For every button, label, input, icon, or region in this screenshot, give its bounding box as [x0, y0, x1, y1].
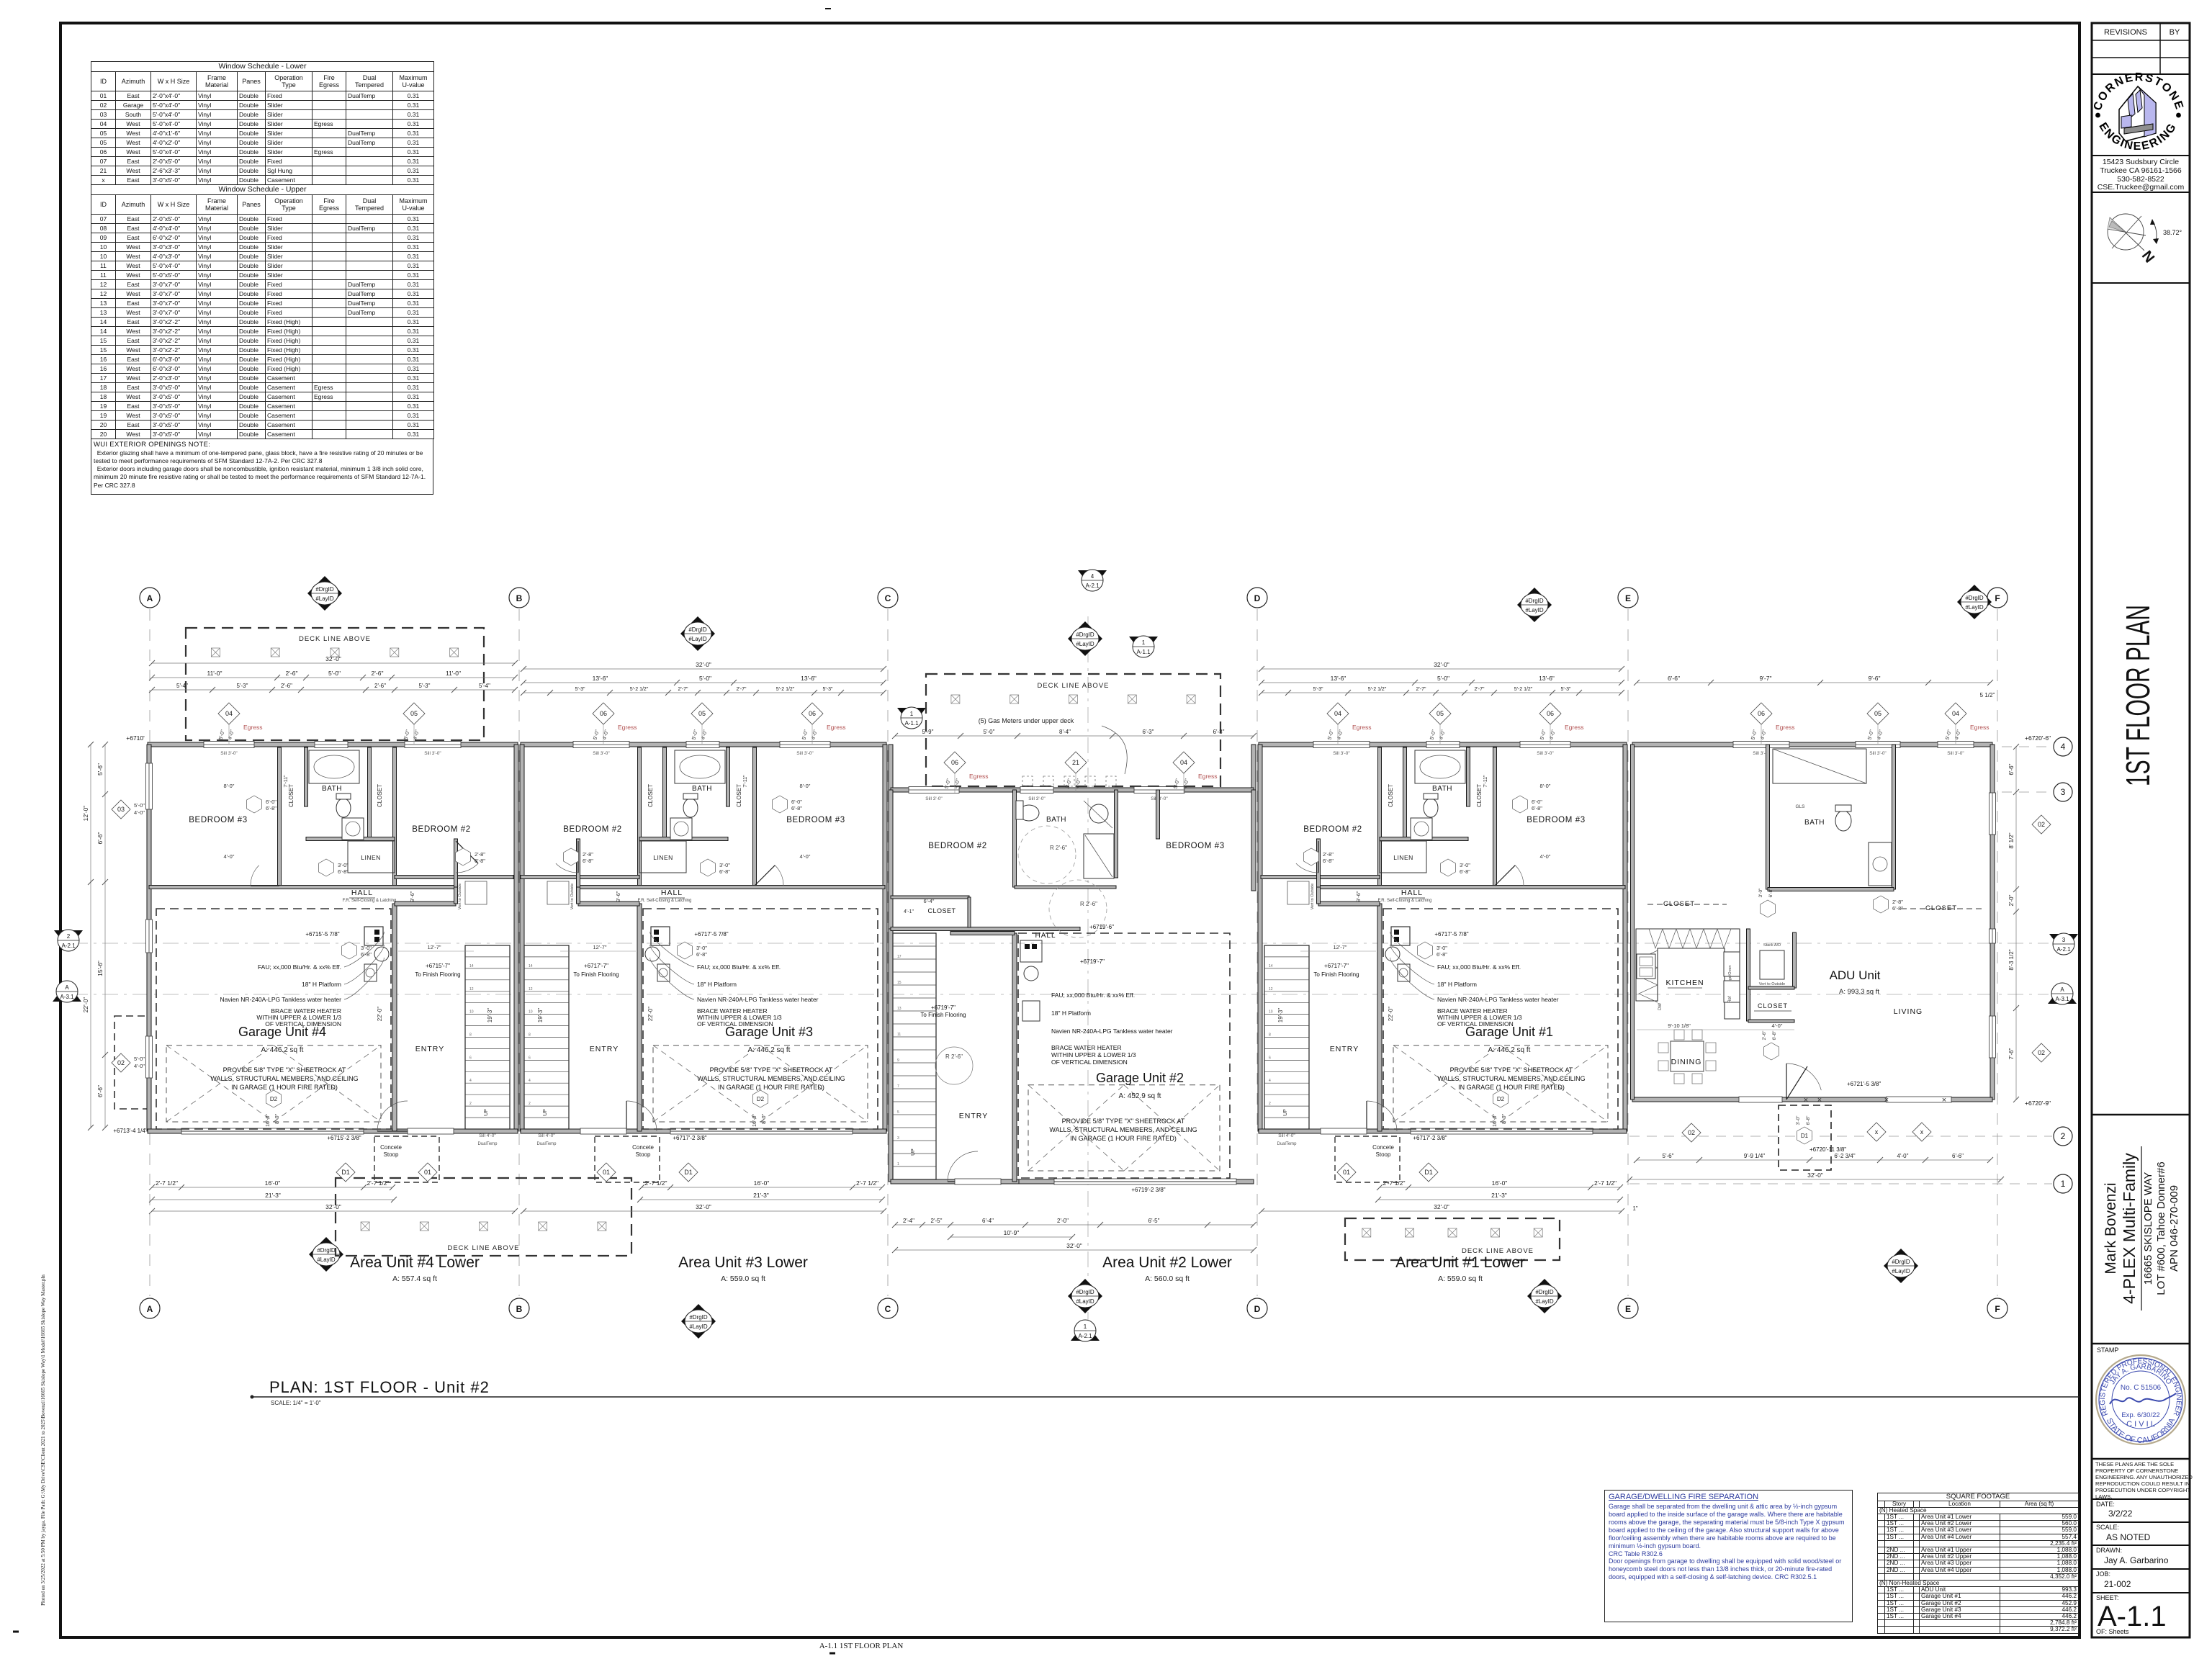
svg-text:N: N — [2139, 247, 2158, 265]
svg-text:16665 SKISLOPE WAY: 16665 SKISLOPE WAY — [2142, 1172, 2154, 1285]
svg-text:Vert to Outside: Vert to Outside — [1310, 884, 1315, 909]
svg-text:A: 559.0 sq ft: A: 559.0 sq ft — [1438, 1274, 1483, 1283]
svg-text:OF: Sheets: OF: Sheets — [2096, 1628, 2129, 1635]
bottom dims unit 2 — [895, 1224, 1254, 1226]
svg-text:B: B — [516, 593, 523, 603]
svg-text:22'-0": 22'-0" — [647, 1007, 654, 1022]
svg-text:04: 04 — [225, 710, 233, 717]
svg-text:2: 2 — [67, 933, 71, 940]
svg-text:12'-0": 12'-0" — [82, 806, 89, 822]
svg-text:14: 14 — [529, 964, 533, 968]
svg-text:HALL: HALL — [661, 889, 683, 897]
svg-text:D2: D2 — [270, 1096, 278, 1102]
unit 3 bath fixtures — [675, 750, 725, 783]
svg-text:3: 3 — [2061, 787, 2066, 797]
svg-text:7'-11": 7'-11" — [1483, 775, 1488, 788]
svg-text:F.R. Self-Closing & Latching: F.R. Self-Closing & Latching — [1378, 899, 1432, 903]
svg-text:Navien NR-240A-LPG Tankless wa: Navien NR-240A-LPG Tankless water heater — [697, 996, 819, 1003]
svg-text:7'-11": 7'-11" — [284, 775, 289, 788]
svg-text:4'-0": 4'-0" — [134, 1063, 145, 1069]
svg-text:9'-7": 9'-7" — [1760, 675, 1772, 682]
svg-text:ENTRY: ENTRY — [415, 1045, 444, 1053]
svg-text:DualTemp: DualTemp — [477, 1142, 498, 1146]
svg-text:11: 11 — [897, 1033, 901, 1037]
svg-text:06: 06 — [809, 710, 816, 717]
svg-text:17: 17 — [897, 955, 902, 959]
unit 2 bath fixtures — [1019, 805, 1039, 821]
svg-text:BEDROOM #3: BEDROOM #3 — [189, 816, 247, 824]
svg-text:+6715'-5 7/8": +6715'-5 7/8" — [305, 931, 339, 938]
svg-text:+6721'-5 3/8": +6721'-5 3/8" — [1847, 1081, 1881, 1087]
svg-text:32'-0": 32'-0" — [696, 661, 711, 668]
svg-text:A: 446.2 sq ft: A: 446.2 sq ft — [1488, 1046, 1531, 1054]
svg-text:2'-8": 2'-8" — [583, 851, 593, 858]
svg-text:A: 557.4 sq ft: A: 557.4 sq ft — [392, 1274, 437, 1283]
svg-text:ADU Unit: ADU Unit — [1830, 968, 1881, 982]
window tags unit 4 — [218, 703, 240, 724]
svg-text:Sill 3'-0": Sill 3'-0" — [1333, 751, 1350, 756]
svg-text:8: 8 — [529, 1033, 531, 1038]
ADU windows — [1733, 742, 1789, 748]
deck line below unit 3 — [336, 1178, 631, 1256]
Cornerstone Engineering logo — [2100, 81, 2177, 120]
ADU closets — [1647, 904, 1727, 905]
unit 4 bedroom doors — [251, 866, 259, 886]
unit 2 closet — [891, 896, 969, 899]
svg-text:BATH: BATH — [1046, 816, 1066, 824]
svg-text:A: 446.2 sq ft: A: 446.2 sq ft — [261, 1046, 304, 1054]
svg-text:2'-7 1/2": 2'-7 1/2" — [1382, 1179, 1405, 1187]
svg-text:HALL: HALL — [1401, 889, 1423, 897]
svg-text:18" H Platform: 18" H Platform — [302, 981, 341, 988]
svg-text:BEDROOM #2: BEDROOM #2 — [412, 825, 470, 834]
svg-text:FAU; xx,000 Btu/Hr. & xx% Eff.: FAU; xx,000 Btu/Hr. & xx% Eff. — [1437, 963, 1521, 971]
svg-text:6'-4": 6'-4" — [924, 898, 935, 904]
svg-text:22'-0": 22'-0" — [377, 1007, 383, 1022]
svg-text:10: 10 — [529, 1010, 533, 1015]
svg-text:BATH: BATH — [692, 785, 712, 793]
svg-text:THESE PLANS ARE THE SOLE: THESE PLANS ARE THE SOLE — [2095, 1461, 2174, 1467]
svg-text:DATE:: DATE: — [2096, 1501, 2115, 1508]
svg-text:+6717'-5 7/8": +6717'-5 7/8" — [694, 931, 728, 938]
ADU dining — [1671, 1041, 1704, 1071]
svg-text:DW: DW — [1658, 1003, 1663, 1010]
svg-text:Egress: Egress — [1352, 724, 1371, 731]
svg-text:D: D — [1254, 593, 1261, 603]
svg-text:BEDROOM #3: BEDROOM #3 — [1166, 842, 1224, 850]
svg-text:9'-10 1/8": 9'-10 1/8" — [1668, 1022, 1691, 1029]
svg-text:D1: D1 — [341, 1169, 350, 1176]
svg-text:E: E — [1625, 593, 1631, 603]
svg-text:IN GARAGE (1 HOUR FIRE RATED): IN GARAGE (1 HOUR FIRE RATED) — [231, 1084, 338, 1091]
svg-text:8'-0": 8'-0" — [1540, 783, 1551, 789]
svg-text:2'-5": 2'-5" — [931, 1218, 943, 1224]
svg-text:05: 05 — [698, 710, 706, 717]
svg-text:4'-0": 4'-0" — [800, 853, 811, 860]
svg-text:+6720'-6": +6720'-6" — [2025, 734, 2051, 742]
svg-text:01: 01 — [603, 1169, 610, 1176]
svg-text:10: 10 — [1269, 1010, 1273, 1015]
svg-text:02: 02 — [1688, 1129, 1695, 1136]
svg-text:2'-6": 2'-6" — [281, 683, 292, 689]
svg-text:5'-2 1/2": 5'-2 1/2" — [630, 687, 649, 692]
svg-text:5'-0": 5'-0" — [1750, 729, 1758, 740]
unit 3 interior partitions — [753, 747, 757, 886]
svg-text:6'-8": 6'-8" — [719, 868, 730, 875]
svg-text:Plotted on 3/25/2022 at 5:50 P: Plotted on 3/25/2022 at 5:50 PM by jayga… — [40, 1274, 46, 1606]
svg-text:LOT #600, Tahoe Donner#6: LOT #600, Tahoe Donner#6 — [2155, 1161, 2167, 1295]
ADU bath — [1766, 745, 1770, 889]
svg-text:18" H Platform: 18" H Platform — [1051, 1010, 1091, 1017]
svg-text:19'-3": 19'-3" — [1277, 1008, 1284, 1023]
unit 4 hex tags — [247, 796, 262, 813]
svg-text:To Finish Flooring: To Finish Flooring — [573, 971, 619, 978]
dims unit 1 — [1262, 668, 1622, 670]
svg-text:6'-5": 6'-5" — [1148, 1218, 1160, 1224]
svg-text:6'-6": 6'-6" — [1952, 1153, 1964, 1159]
svg-text:4'-0": 4'-0" — [134, 809, 145, 816]
svg-text:DualTemp: DualTemp — [536, 1142, 557, 1146]
svg-text:5'-2 1/2": 5'-2 1/2" — [1368, 687, 1387, 692]
svg-text:02: 02 — [117, 1059, 125, 1066]
svg-text:Garage Unit #2: Garage Unit #2 — [1096, 1071, 1184, 1085]
svg-text:Vert to Outside: Vert to Outside — [1759, 982, 1785, 986]
svg-text:Sill 3'-0": Sill 3'-0" — [1537, 751, 1554, 756]
svg-text:BEDROOM #2: BEDROOM #2 — [563, 825, 621, 834]
svg-text:5'-2 1/2": 5'-2 1/2" — [1514, 687, 1533, 692]
svg-text:3'-0": 3'-0" — [1437, 945, 1447, 951]
svg-text:A-2.1: A-2.1 — [61, 943, 76, 949]
svg-text:Egress: Egress — [618, 724, 637, 731]
svg-text:CLOSET: CLOSET — [1388, 784, 1394, 807]
svg-text:3'-0": 3'-0" — [1758, 888, 1763, 898]
svg-text:Jay A. Garbarino: Jay A. Garbarino — [2104, 1555, 2169, 1565]
svg-text:9'-6": 9'-6" — [1355, 891, 1362, 902]
unit 4 garage — [156, 909, 391, 1129]
svg-text:16'-0": 16'-0" — [265, 1179, 281, 1187]
svg-text:5'-0": 5'-0" — [1539, 729, 1547, 740]
garage/dwelling fire separation note — [1604, 1490, 1853, 1622]
svg-text:8: 8 — [1269, 1033, 1271, 1038]
svg-text:DualTemp: DualTemp — [1277, 1142, 1297, 1146]
svg-text:A: A — [147, 1304, 153, 1314]
flags — [307, 576, 342, 611]
svg-text:A-3.1: A-3.1 — [60, 994, 74, 1000]
svg-text:3/2/22: 3/2/22 — [2108, 1509, 2133, 1519]
svg-text:5'-9": 5'-9" — [922, 729, 934, 735]
svg-text:OF VERTICAL DIMENSION: OF VERTICAL DIMENSION — [1437, 1020, 1514, 1028]
svg-text:PROVIDE 5/8" TYPE "X" SHEETROC: PROVIDE 5/8" TYPE "X" SHEETROCK AT — [710, 1066, 833, 1074]
svg-text:Concete: Concete — [1372, 1144, 1394, 1151]
svg-text:UP: UP — [484, 1109, 489, 1116]
svg-text:Navien NR-240A-LPG Tankless wa: Navien NR-240A-LPG Tankless water heater — [1437, 996, 1559, 1003]
svg-text:6'-6": 6'-6" — [1668, 675, 1680, 682]
unit 2 FAU — [1020, 940, 1042, 962]
svg-text:12'-7": 12'-7" — [1333, 944, 1346, 950]
svg-text:Sill 3'-0": Sill 3'-0" — [1947, 751, 1964, 756]
svg-text:5'-2 1/2": 5'-2 1/2" — [776, 687, 795, 692]
bottom dims unit 4 — [152, 1187, 392, 1188]
svg-text:#LayID: #LayID — [689, 1323, 708, 1330]
svg-text:C: C — [885, 1304, 891, 1314]
unit 4 left wall windows — [146, 763, 153, 809]
svg-text:Sill 3'-0": Sill 3'-0" — [1028, 796, 1046, 801]
svg-text:3'-0": 3'-0" — [696, 945, 707, 951]
svg-text:Area Unit #1 Lower: Area Unit #1 Lower — [1395, 1254, 1525, 1271]
svg-text:6'-2 3/4": 6'-2 3/4" — [1834, 1153, 1855, 1159]
deck line above unit 4 — [186, 628, 484, 740]
svg-text:Sill 3'-0": Sill 3'-0" — [796, 751, 814, 756]
svg-text:REPRODUCTION COULD RESULT IN: REPRODUCTION COULD RESULT IN — [2095, 1480, 2190, 1487]
svg-text:22'-0": 22'-0" — [1388, 1007, 1394, 1022]
svg-text:21-002: 21-002 — [2104, 1579, 2131, 1589]
svg-text:16'-0": 16'-0" — [754, 1179, 770, 1187]
svg-text:5'-0": 5'-0" — [218, 729, 226, 740]
svg-text:6'-8": 6'-8" — [1892, 905, 1903, 912]
svg-text:#DrgID: #DrgID — [1965, 595, 1984, 601]
svg-text:PROPERTY OF CORNERSTONE: PROPERTY OF CORNERSTONE — [2095, 1467, 2178, 1474]
unit 1 top wall windows — [1520, 742, 1570, 748]
svg-text:A: A — [147, 593, 153, 603]
svg-text:6: 6 — [1269, 1056, 1271, 1060]
svg-text:WALLS, STRUCTURAL MEMBERS, AND: WALLS, STRUCTURAL MEMBERS, AND CEILING — [697, 1075, 845, 1082]
svg-text:4'-0": 4'-0" — [224, 853, 235, 860]
ADU exterior walls — [1632, 742, 1992, 747]
unit 3 linen — [639, 841, 686, 873]
unit 1 hex tags — [1513, 796, 1528, 813]
svg-text:04: 04 — [1334, 710, 1341, 717]
svg-text:6'-8": 6'-8" — [266, 805, 276, 811]
svg-text:#LayID: #LayID — [688, 636, 707, 642]
svg-text:WITHIN UPPER & LOWER 1/3: WITHIN UPPER & LOWER 1/3 — [1051, 1051, 1136, 1058]
svg-text:02: 02 — [2038, 821, 2045, 828]
svg-text:12: 12 — [529, 987, 533, 992]
svg-text:CLOSET: CLOSET — [927, 907, 956, 914]
svg-text:8'-0": 8'-0" — [1502, 1114, 1507, 1124]
svg-text:ENTRY: ENTRY — [959, 1112, 988, 1120]
unit 3 entry door — [626, 1101, 657, 1131]
svg-text:2'-7": 2'-7" — [737, 687, 747, 692]
svg-text:BEDROOM #2: BEDROOM #2 — [1303, 825, 1362, 834]
window tags ADU — [1750, 703, 1772, 724]
svg-text:IN GARAGE (1 HOUR FIRE RATED): IN GARAGE (1 HOUR FIRE RATED) — [1070, 1135, 1177, 1142]
svg-text:#DrgID: #DrgID — [1535, 1289, 1554, 1295]
svg-text:2'-7 1/2": 2'-7 1/2" — [644, 1179, 667, 1187]
svg-text:6'-3": 6'-3" — [1213, 729, 1225, 735]
svg-text:6'-8": 6'-8" — [1460, 868, 1470, 875]
svg-text:F: F — [1995, 1304, 2000, 1314]
svg-text:12: 12 — [1269, 987, 1273, 992]
svg-text:2'-8": 2'-8" — [475, 851, 485, 858]
svg-text:Concete: Concete — [632, 1144, 654, 1151]
svg-text:#DrgID: #DrgID — [1892, 1259, 1910, 1265]
svg-text:14: 14 — [469, 964, 474, 968]
svg-text:4: 4 — [1091, 573, 1094, 580]
svg-text:9'-9 1/4": 9'-9 1/4" — [1744, 1153, 1765, 1159]
svg-text:32'-0": 32'-0" — [1434, 1203, 1449, 1210]
svg-text:+6710': +6710' — [126, 734, 145, 742]
svg-text:5'-0": 5'-0" — [403, 729, 411, 740]
svg-text:+6717'-5 7/8": +6717'-5 7/8" — [1434, 931, 1468, 938]
svg-text:8'-0": 8'-0" — [800, 783, 811, 789]
svg-text:×: × — [1942, 1096, 1946, 1105]
svg-text:13: 13 — [897, 1007, 902, 1011]
svg-text:PROVIDE 5/8" TYPE "X" SHEETROC: PROVIDE 5/8" TYPE "X" SHEETROCK AT — [1450, 1066, 1573, 1074]
svg-text:6'-4": 6'-4" — [982, 1218, 994, 1224]
unit 2 stairs/entry — [893, 933, 936, 1179]
grid lines and bubbles — [149, 609, 150, 1296]
svg-text:6'-8": 6'-8" — [583, 858, 593, 864]
svg-text:01: 01 — [1343, 1169, 1350, 1176]
svg-text:#LayID: #LayID — [1535, 1298, 1554, 1305]
unit 1 interior dims — [1300, 950, 1376, 952]
svg-text:+6719'-2 3/8": +6719'-2 3/8" — [1131, 1187, 1165, 1193]
unit 4 vert-to-outside — [465, 881, 487, 904]
svg-text:A-1.1 1ST FLOOR PLAN: A-1.1 1ST FLOOR PLAN — [819, 1642, 904, 1650]
svg-text:Vert to Outside: Vert to Outside — [458, 884, 462, 909]
unit 2 windows — [909, 787, 959, 793]
svg-text:5'-4": 5'-4" — [479, 683, 490, 689]
svg-text:1: 1 — [2061, 1179, 2066, 1189]
svg-text:+6720'-9": +6720'-9" — [2025, 1100, 2051, 1107]
svg-text:×: × — [1804, 1096, 1808, 1105]
svg-text:5'-0": 5'-0" — [1327, 729, 1335, 740]
svg-text:PLAN: 1ST FLOOR - Unit #2: PLAN: 1ST FLOOR - Unit #2 — [269, 1378, 490, 1396]
svg-text:5'-0": 5'-0" — [801, 729, 809, 740]
unit 4 interior partitions — [278, 747, 282, 886]
svg-text:No. C 51506: No. C 51506 — [2121, 1384, 2162, 1392]
svg-text:6'-8": 6'-8" — [1768, 888, 1773, 898]
svg-text:DECK LINE ABOVE: DECK LINE ABOVE — [447, 1244, 519, 1252]
svg-text:2'-7 1/2": 2'-7 1/2" — [156, 1179, 178, 1187]
svg-text:5'-0": 5'-0" — [593, 729, 601, 740]
svg-text:03: 03 — [117, 806, 125, 813]
unit 3 garage separation wall — [637, 904, 642, 1131]
unit 2 garage — [1018, 933, 1230, 1178]
svg-text:#LayID: #LayID — [1076, 1298, 1094, 1305]
svg-text:2'-6": 2'-6" — [372, 670, 384, 677]
svg-text:13'-6": 13'-6" — [801, 675, 817, 682]
svg-text:Navien NR-240A-LPG Tankless wa: Navien NR-240A-LPG Tankless water heater — [1051, 1028, 1173, 1035]
svg-text:Egress: Egress — [243, 724, 262, 731]
svg-text:Sill 3'-0": Sill 3'-0" — [220, 751, 238, 756]
svg-text:A: 452.9 sq ft: A: 452.9 sq ft — [1119, 1092, 1161, 1100]
svg-text:A: A — [2060, 986, 2064, 993]
svg-text:1: 1 — [910, 711, 914, 717]
svg-text:#LayID: #LayID — [317, 1256, 336, 1263]
svg-text:5'-0": 5'-0" — [984, 729, 995, 735]
svg-text:F.R. Self-Closing & Latching: F.R. Self-Closing & Latching — [343, 899, 397, 903]
unit 4 top wall windows — [204, 742, 254, 748]
svg-text:21'-3": 21'-3" — [753, 1192, 769, 1199]
svg-text:Mark Bovenzi: Mark Bovenzi — [2103, 1182, 2119, 1274]
svg-text:16'-0": 16'-0" — [1492, 1179, 1508, 1187]
svg-text:5'-0": 5'-0" — [1437, 675, 1449, 682]
dims unit 2 — [895, 735, 1254, 737]
svg-text:13'-6": 13'-6" — [1331, 675, 1346, 682]
svg-text:BEDROOM #2: BEDROOM #2 — [928, 842, 986, 850]
svg-text:C: C — [885, 593, 891, 603]
svg-text:4: 4 — [2061, 742, 2066, 752]
svg-text:22'-0": 22'-0" — [82, 997, 89, 1013]
unit 4 garage separation wall — [392, 904, 397, 1131]
svg-text:11'-0": 11'-0" — [207, 670, 222, 677]
unit 1 FAU equipment — [1391, 927, 1410, 945]
svg-text:UP: UP — [1283, 1109, 1288, 1116]
unit 4 bottom wall + garage door — [148, 1129, 518, 1133]
svg-text:Sill 4'-0": Sill 4'-0" — [1278, 1133, 1295, 1138]
svg-text:2'-0": 2'-0" — [2008, 894, 2015, 906]
svg-text:5'-0": 5'-0" — [1867, 729, 1875, 740]
svg-text:2'-8": 2'-8" — [1323, 851, 1334, 858]
svg-text:Truckee CA 96161-1566: Truckee CA 96161-1566 — [2100, 166, 2182, 175]
unit 1 D2 tag — [1493, 1090, 1509, 1107]
unit 3 bedroom doors — [775, 866, 783, 886]
svg-text:05: 05 — [1437, 710, 1444, 717]
svg-text:7'-6": 7'-6" — [2008, 1048, 2015, 1059]
svg-text:SCALE:: SCALE: — [2096, 1524, 2119, 1531]
svg-text:Area Unit #2 Lower: Area Unit #2 Lower — [1102, 1254, 1232, 1271]
svg-text:F: F — [1995, 593, 2000, 603]
svg-text:15'-6": 15'-6" — [96, 961, 104, 976]
unit 1 vert-to-outside — [1287, 881, 1309, 904]
svg-text:9: 9 — [897, 1058, 899, 1063]
svg-text:Egress: Egress — [827, 724, 845, 731]
svg-text:1ST FLOOR PLAN: 1ST FLOOR PLAN — [2119, 605, 2157, 786]
unit 4 interior dims — [398, 950, 474, 952]
svg-text:8' 1/2": 8' 1/2" — [2008, 832, 2015, 848]
svg-text:CLOSET: CLOSET — [288, 784, 295, 807]
svg-text:A-2.1: A-2.1 — [1078, 1333, 1092, 1339]
svg-text:CLOSET: CLOSET — [1476, 784, 1483, 807]
svg-text:2'-6": 2'-6" — [286, 670, 298, 677]
svg-text:D1: D1 — [1424, 1169, 1433, 1176]
svg-text:32'-0": 32'-0" — [1434, 661, 1449, 668]
svg-text:05: 05 — [1874, 710, 1881, 717]
section cut lines — [72, 943, 2049, 944]
svg-text:ENGINEERING. ANY UNAUTHORIZED: ENGINEERING. ANY UNAUTHORIZED — [2095, 1474, 2193, 1480]
svg-text:A-3.1: A-3.1 — [2055, 996, 2069, 1002]
svg-text:+6719'-6": +6719'-6" — [1089, 924, 1114, 930]
svg-text:D1: D1 — [1801, 1133, 1809, 1139]
svg-text:A-1.1: A-1.1 — [1136, 649, 1151, 655]
svg-text:6'-8": 6'-8" — [696, 951, 707, 958]
svg-text:13'-6": 13'-6" — [593, 675, 608, 682]
svg-text:R 2'-6": R 2'-6" — [1080, 901, 1097, 907]
svg-text:18" H Platform: 18" H Platform — [1437, 981, 1477, 988]
svg-text:+6717'-2 3/8": +6717'-2 3/8" — [673, 1135, 706, 1141]
svg-text:5'-4": 5'-4" — [176, 683, 188, 689]
svg-text:Egress: Egress — [969, 773, 988, 780]
svg-text:06: 06 — [1547, 710, 1554, 717]
svg-text:5'-3": 5'-3" — [823, 687, 833, 692]
svg-text:REVISIONS: REVISIONS — [2104, 28, 2147, 37]
svg-text:6'-6": 6'-6" — [2008, 763, 2015, 775]
svg-text:1: 1 — [897, 1162, 899, 1166]
svg-text:BEDROOM #3: BEDROOM #3 — [786, 816, 845, 824]
unit 3 top wall windows — [780, 742, 830, 748]
svg-text:21: 21 — [1072, 759, 1079, 766]
svg-text:STAMP: STAMP — [2097, 1346, 2118, 1354]
svg-text:3: 3 — [897, 1136, 899, 1141]
svg-text:6'-6": 6'-6" — [96, 1085, 104, 1097]
svg-text:Sill 4'-0": Sill 4'-0" — [538, 1133, 555, 1138]
svg-text:LIVING: LIVING — [1894, 1007, 1923, 1016]
svg-text:D2: D2 — [757, 1096, 765, 1102]
unit 1 stoop — [1335, 1136, 1400, 1182]
svg-text:#LayID: #LayID — [1525, 607, 1544, 613]
svg-text:3'-0": 3'-0" — [719, 862, 730, 868]
